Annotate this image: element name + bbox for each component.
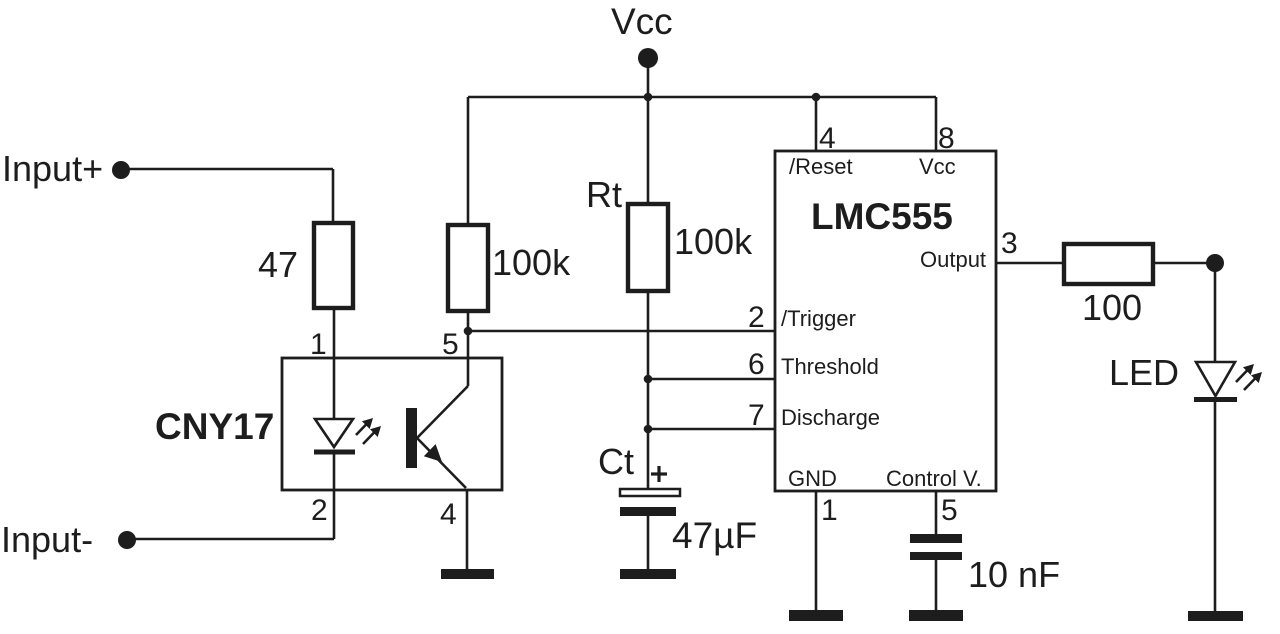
svg-text:Discharge: Discharge (781, 405, 880, 430)
resistor R3 100 (1064, 244, 1153, 284)
optocoupler CNY17 box (282, 358, 502, 490)
transistor Q1 emitter arrow (424, 444, 442, 462)
wire pin 4 (815, 97, 818, 151)
svg-text:4: 4 (819, 122, 836, 155)
svg-text:100k: 100k (492, 242, 571, 283)
svg-text:Rt: Rt (586, 174, 622, 215)
svg-text:4: 4 (440, 498, 457, 531)
node Input+ terminal (112, 161, 130, 179)
svg-text:LED: LED (1109, 352, 1179, 393)
wire R1 to opto LED anode (333, 308, 336, 419)
svg-text:47µF: 47µF (672, 515, 757, 556)
wire R2 bottom to collector (467, 311, 470, 386)
svg-text:LMC555: LMC555 (811, 196, 953, 237)
LED D1 triangle (1196, 362, 1235, 396)
wire Input- horizontal (127, 538, 334, 541)
wire pin 3 output (996, 262, 1064, 265)
transistor Q1 base bar (406, 408, 417, 468)
svg-text:1: 1 (821, 494, 838, 527)
wire opto LED cathode down to Input- (333, 452, 336, 539)
ground under C2 (909, 610, 963, 621)
opto LED emission arrow b (363, 426, 381, 444)
LED D1 emission arrow a (1236, 364, 1254, 382)
svg-text:2: 2 (311, 494, 328, 527)
svg-text:47: 47 (258, 244, 298, 285)
svg-text:Vcc: Vcc (611, 1, 673, 42)
wire Vcc stem (647, 58, 650, 97)
wire node to LED (1214, 263, 1217, 362)
wire 555 GND pin 1 (815, 491, 818, 610)
wire to /Trigger pin 2 (468, 330, 775, 333)
svg-text:100: 100 (1082, 287, 1142, 328)
svg-text:Output: Output (920, 247, 986, 272)
svg-text:Input-: Input- (1, 519, 93, 560)
resistor R2 100k (448, 225, 488, 311)
junction at rail and pin 4 branch (812, 93, 821, 102)
svg-text:2: 2 (748, 301, 765, 334)
svg-text:Ct: Ct (598, 441, 634, 482)
svg-text:3: 3 (1001, 227, 1018, 260)
wire 555 Control pin 5 (935, 491, 938, 534)
svg-text:5: 5 (442, 328, 459, 361)
opto LED emission arrow a (356, 418, 373, 435)
svg-text:Threshold: Threshold (781, 354, 879, 379)
svg-text:Control V.: Control V. (886, 466, 982, 491)
plus sign of Ct (651, 466, 667, 482)
wire Ct to ground (647, 516, 650, 569)
junction discharge (644, 425, 653, 434)
svg-text:7: 7 (748, 399, 765, 432)
wire Rt bottom to Ct (647, 291, 650, 489)
ground under pin 1 (789, 610, 843, 621)
wire Input+ horizontal (127, 168, 333, 171)
node Input- terminal (118, 531, 136, 549)
svg-text:6: 6 (748, 348, 765, 381)
wire resistor to node (1153, 262, 1215, 265)
svg-text:CNY17: CNY17 (155, 406, 274, 447)
resistor R1 47 (314, 223, 353, 308)
svg-text:10 nF: 10 nF (968, 554, 1060, 595)
capacitor Ct plus plate (620, 489, 680, 496)
wire to Discharge pin 7 (648, 428, 775, 431)
wire top supply rail (468, 96, 936, 99)
svg-text:/Reset: /Reset (789, 154, 853, 179)
transistor Q1 collector (417, 386, 468, 438)
node Vcc terminal (638, 48, 658, 68)
wire rail to R2 top (467, 97, 470, 225)
node output (1206, 254, 1224, 272)
opto LED cathode bar (314, 450, 355, 455)
ground under LED (1188, 611, 1243, 621)
svg-text:1: 1 (310, 328, 327, 361)
transistor Q1 emitter (417, 438, 466, 488)
wire rail to Rt top (647, 97, 650, 204)
LED D1 emission arrow b (1244, 372, 1262, 390)
opto LED triangle (315, 419, 353, 447)
wire to Threshold pin 6 (648, 378, 775, 381)
svg-text:Vcc: Vcc (919, 154, 956, 179)
capacitor Ct minus plate (620, 507, 676, 516)
junction threshold (644, 375, 653, 384)
wire opto pin 4 to ground (466, 489, 469, 569)
junction at rail and Rt branch (644, 93, 653, 102)
svg-text:8: 8 (938, 122, 955, 155)
IC U1 LMC555 box (775, 151, 996, 491)
wire C2 to ground (935, 560, 938, 610)
svg-text:Input+: Input+ (2, 148, 103, 189)
svg-text:/Trigger: /Trigger (781, 306, 856, 331)
node pin5 junction (464, 327, 473, 336)
wire LED to ground (1214, 400, 1217, 611)
svg-text:100k: 100k (674, 221, 753, 262)
svg-text:GND: GND (788, 466, 837, 491)
svg-text:5: 5 (941, 494, 958, 527)
ground under opto (441, 569, 494, 579)
wire down to R1 (332, 169, 335, 223)
resistor Rt 100k (628, 204, 668, 291)
ground under Ct (620, 569, 676, 579)
LED D1 cathode bar (1194, 397, 1237, 402)
capacitor C2 10nF plate 2 (910, 552, 962, 560)
wire pin 8 (935, 97, 938, 151)
capacitor C2 10nF plate 1 (910, 534, 962, 543)
